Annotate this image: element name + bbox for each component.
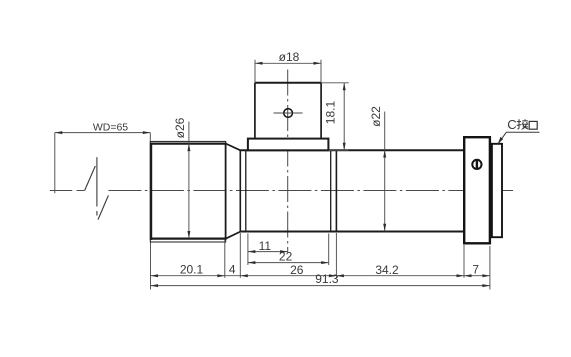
svg-text:WD=65: WD=65	[93, 122, 128, 134]
svg-text:4: 4	[229, 262, 236, 276]
svg-text:26: 26	[290, 263, 304, 277]
svg-text:7: 7	[472, 262, 479, 276]
svg-text:20.1: 20.1	[180, 262, 204, 276]
svg-text:11: 11	[259, 239, 272, 253]
svg-text:22: 22	[279, 250, 293, 264]
svg-text:ø18: ø18	[279, 50, 300, 64]
svg-text:ø26: ø26	[173, 117, 187, 138]
svg-text:34.2: 34.2	[375, 263, 399, 277]
svg-text:C: C	[507, 117, 516, 132]
svg-text:ø22: ø22	[369, 106, 383, 127]
svg-text:91.3: 91.3	[315, 272, 339, 286]
svg-text:18.1: 18.1	[323, 100, 337, 124]
